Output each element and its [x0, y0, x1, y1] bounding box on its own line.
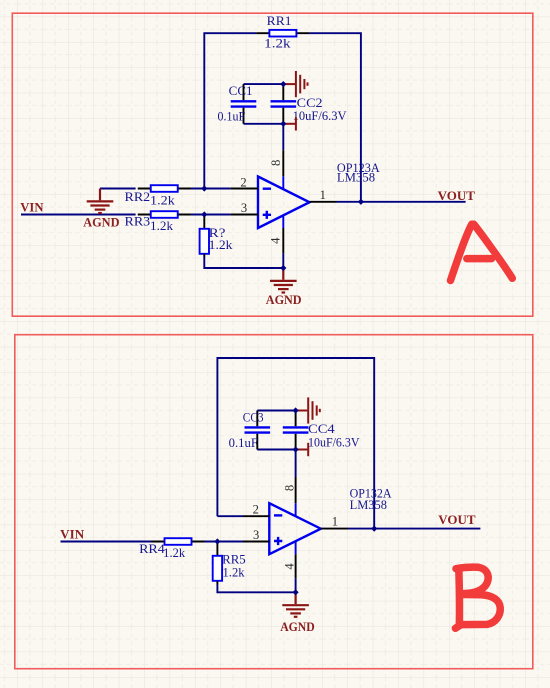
wire output VOUT A	[337, 201, 466, 203]
svg-text:0.1uF: 0.1uF	[218, 110, 246, 124]
wire capacitor bank bottom A	[244, 123, 284, 125]
svg-text:1.2k: 1.2k	[150, 193, 176, 207]
pin 4 of op-amp A	[268, 216, 283, 254]
junction node A cap bottom	[280, 121, 286, 127]
pin 2 of op-amp A	[231, 175, 258, 189]
wire feedback loop B	[217, 358, 374, 529]
junction node A output	[358, 199, 364, 205]
svg-text:2: 2	[253, 502, 259, 516]
junction node B input	[214, 538, 220, 544]
svg-text:1.2k: 1.2k	[150, 219, 174, 233]
svg-text:AGND: AGND	[280, 620, 315, 634]
wire RR4 junction to pin3 B	[205, 541, 244, 543]
resistor RR1	[256, 14, 309, 50]
wire ground rail B	[217, 578, 295, 592]
svg-text:3: 3	[241, 201, 247, 215]
svg-text:VOUT: VOUT	[438, 189, 476, 203]
svg-text:0.1uF: 0.1uF	[229, 436, 258, 450]
svg-text:10uF/6.3V: 10uF/6.3V	[308, 436, 360, 450]
wire pin3 input A	[191, 214, 231, 216]
wire pin2 link B	[217, 515, 243, 517]
svg-text:LM358: LM358	[350, 498, 387, 512]
svg-text:RR4: RR4	[139, 542, 165, 556]
border frame of section A	[12, 13, 533, 316]
wire capacitor bank top B	[257, 410, 295, 412]
svg-text:LM358: LM358	[337, 171, 375, 185]
ground AGND bottom A	[266, 268, 302, 307]
border frame of section B	[15, 335, 533, 669]
wire output VOUT B	[348, 528, 480, 530]
junction node A pin3	[201, 211, 207, 217]
pin 8 of op-amp B	[283, 477, 297, 516]
junction node A pin2	[201, 185, 207, 191]
svg-text:4: 4	[268, 237, 282, 244]
wire ground rail A	[204, 254, 283, 268]
capacitor CC4	[283, 411, 360, 450]
ground AGND left A	[83, 189, 119, 230]
power bar symbol below caps A	[283, 117, 296, 130]
svg-text:1.2k: 1.2k	[209, 238, 234, 252]
resistor RR5	[213, 542, 246, 585]
pin 1 of op-amp B	[321, 514, 348, 528]
svg-text:CC1: CC1	[229, 84, 253, 98]
svg-text:10uF/6.3V: 10uF/6.3V	[293, 109, 347, 123]
svg-text:RR2: RR2	[125, 190, 151, 204]
annotation letter B	[455, 567, 500, 628]
svg-text:3: 3	[253, 528, 259, 542]
pin 3 of op-amp B	[243, 528, 269, 542]
svg-text:AGND: AGND	[266, 293, 302, 307]
junction node B output	[371, 526, 377, 532]
svg-text:1.2k: 1.2k	[163, 546, 186, 560]
junction node A ground rail	[280, 265, 286, 271]
svg-text:VIN: VIN	[20, 200, 44, 214]
resistor RR3	[125, 211, 191, 233]
svg-text:8: 8	[283, 485, 297, 491]
wire RR2 to ground A	[100, 188, 136, 190]
svg-text:1.2k: 1.2k	[264, 36, 291, 50]
capacitor CC2	[271, 84, 347, 124]
wire VIN B	[61, 541, 152, 543]
svg-text:RR3: RR3	[125, 215, 151, 229]
capacitor CC1	[218, 84, 257, 124]
svg-text:AGND: AGND	[83, 215, 119, 229]
resistor RR2	[125, 185, 191, 207]
resistor R?	[200, 215, 234, 258]
svg-text:1: 1	[332, 514, 338, 528]
power bar symbol below caps B	[296, 443, 309, 456]
power ground earth symbol above caps B	[296, 397, 320, 423]
junction node A cap top	[280, 81, 286, 87]
resistor RR4	[139, 538, 204, 560]
junction node B cap top	[293, 407, 299, 413]
svg-text:RR1: RR1	[267, 14, 292, 28]
svg-text:4: 4	[283, 563, 297, 570]
svg-text:1.2k: 1.2k	[223, 565, 246, 579]
wire capacitor bank bottom B	[257, 449, 295, 451]
svg-text:CC4: CC4	[308, 422, 335, 436]
wire capacitor bank top A	[244, 83, 284, 85]
svg-text:VOUT: VOUT	[438, 513, 476, 527]
wire pin2 input A	[191, 188, 231, 190]
wire VIN A	[21, 214, 136, 216]
annotation letter A	[451, 224, 513, 280]
pin 2 of op-amp B	[243, 502, 269, 516]
op-amp U1B	[269, 503, 321, 554]
junction node B ground rail	[293, 589, 299, 595]
svg-text:2: 2	[240, 175, 246, 189]
junction node B cap bottom	[293, 446, 299, 452]
capacitor CC3	[229, 411, 270, 450]
ground AGND bottom B	[280, 592, 315, 634]
wire pin8 column B	[295, 450, 297, 478]
svg-text:8: 8	[269, 160, 283, 166]
svg-text:1: 1	[320, 188, 326, 202]
pin 3 of op-amp A	[231, 201, 258, 215]
svg-text:VIN: VIN	[60, 528, 85, 542]
power ground earth symbol above caps A	[283, 71, 307, 97]
pin 1 of op-amp A	[310, 188, 337, 202]
svg-text:CC3: CC3	[243, 411, 264, 425]
op-amp U1A	[258, 177, 310, 229]
pin 8 of op-amp A	[269, 150, 283, 189]
pin 4 of op-amp B	[283, 542, 297, 578]
wire pin8 column A	[282, 124, 284, 150]
wire feedback rail A (node2 column, top rail, output column)	[204, 33, 361, 202]
